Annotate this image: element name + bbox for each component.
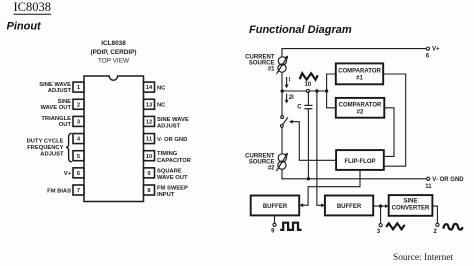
flip-flop U3 box (336, 150, 384, 170)
svg-text:CONVERTER: CONVERTER (392, 206, 430, 212)
current arrow I (285, 77, 291, 88)
heading Functional Diagram (249, 24, 352, 36)
pin 7 label FM BIAS (47, 188, 71, 194)
wire switch control from flip-flop (289, 120, 336, 161)
brace grouping pins 4-5 (66, 133, 72, 162)
comparator U1 box (336, 63, 383, 84)
wire node to comparator 1 (327, 74, 336, 91)
pin 1 label SINE WAVE ADJUST (39, 82, 71, 94)
current source I2 (276, 153, 288, 171)
pin 10 label TIMING CAPACITOR (157, 151, 192, 164)
pin 13 label NC (157, 103, 166, 109)
ground rail V- OR GND wire (282, 178, 427, 180)
V- OR GND terminal node (425, 177, 464, 190)
IC body U1 (84, 76, 144, 202)
svg-text:11: 11 (425, 184, 432, 190)
wire switch to I2 (281, 127, 283, 154)
current arrow 2I (285, 94, 294, 104)
pin 9 label SQUARE WAVE OUT (157, 168, 188, 181)
timing node horizontal wire (282, 90, 326, 92)
sine waveform symbol at pin 2 (443, 224, 462, 230)
svg-text:SINE: SINE (403, 199, 417, 205)
pin 14 box (144, 82, 155, 92)
node capacitor to ground junction (307, 177, 310, 180)
pin 10 box (144, 151, 155, 161)
current source I1 (277, 55, 289, 73)
wire I2 to ground rail (282, 169, 283, 179)
wire I1 to node (281, 72, 283, 91)
pin 4 box (73, 134, 84, 144)
node triangle tap junction (315, 89, 318, 92)
pin 3 box (73, 116, 84, 126)
pin 12 box (144, 116, 155, 126)
svg-text:V+: V+ (432, 47, 440, 53)
pin 10 terminal node (304, 82, 311, 93)
current source #1 label (245, 55, 275, 73)
wire flip-flop to buffer1 (299, 170, 360, 207)
wire node to switch (281, 91, 283, 116)
pin 2 label SINE WAVE OUT (41, 99, 72, 111)
caption Source: Internet (393, 253, 454, 263)
capacitor C (297, 91, 312, 179)
svg-text:10: 10 (304, 82, 311, 88)
pin 11 label V- OR GND (157, 137, 187, 143)
pin 8 label FM SWEEP INPUT (157, 185, 188, 198)
svg-text:#1: #1 (356, 76, 363, 82)
comparator U2 box (336, 98, 385, 118)
node comparator tap junction (325, 89, 328, 92)
svg-text:2I: 2I (289, 95, 294, 101)
pin 14 label NC (157, 85, 166, 91)
pin 7 box (73, 185, 84, 195)
svg-text:BUFFER: BUFFER (337, 204, 362, 210)
IC header text ICL8038 (PDIP, CERDIP) TOP VIEW (90, 40, 136, 64)
svg-text:3: 3 (377, 229, 381, 235)
pin 3 label TRIANGLE OUT (41, 116, 71, 128)
svg-text:C: C (297, 104, 302, 110)
triangle waveform symbol at pin 3 (386, 223, 405, 229)
svg-text:Source: Internet: Source: Internet (393, 253, 454, 263)
svg-text:#1: #1 (268, 67, 275, 73)
svg-text:FLIP-FLOP: FLIP-FLOP (345, 159, 376, 165)
wire to pin 3 terminal (377, 206, 382, 235)
pin 6 box (73, 168, 84, 178)
svg-text:#2: #2 (268, 166, 275, 172)
pins 4-5 label DUTY CYCLE FREQUENCY ADJUST (27, 139, 64, 158)
heading Pinout (7, 21, 43, 33)
pin 11 box (144, 134, 155, 144)
pin 8 box (144, 185, 155, 195)
V+ supply rail wire (282, 49, 426, 57)
wire node to comparator 2 (327, 91, 336, 108)
current source #2 label (245, 154, 275, 172)
title IC8038 (14, 0, 52, 14)
wire triangle to buffer2 (317, 91, 325, 207)
pin 6 label V+ (64, 171, 72, 177)
triangle waveform symbol at pin 10 (300, 73, 318, 79)
pin 9 box (144, 168, 155, 178)
node: timing node junction (281, 89, 284, 92)
wire buffer1 to pin 9 terminal (271, 215, 276, 234)
buffer A1 box (251, 196, 300, 216)
buffer A2 box (325, 196, 373, 216)
V+ terminal node (426, 47, 440, 60)
svg-text:I: I (289, 77, 291, 83)
square waveform symbol at pin 9 (280, 223, 301, 230)
switch S1 (281, 116, 289, 128)
pin 5 box (73, 151, 84, 161)
wire comparator 1 output to flip-flop (383, 74, 406, 166)
svg-text:9: 9 (271, 229, 275, 235)
svg-text:#2: #2 (357, 110, 364, 116)
wire comparator 2 output to flip-flop (384, 108, 394, 157)
pin 12 label SINE WAVE ADJUST (157, 117, 189, 130)
svg-text:COMPARATOR: COMPARATOR (339, 103, 382, 109)
sine converter box (389, 195, 433, 216)
svg-text:V- OR GND: V- OR GND (432, 177, 464, 183)
wire sine converter to pin 2 terminal (432, 206, 439, 235)
pin 2 box (73, 99, 84, 109)
svg-text:6: 6 (426, 54, 430, 60)
pin 1 box (73, 82, 84, 92)
wire buffer2 to sine converter (373, 204, 389, 208)
pin 13 box (144, 99, 155, 109)
node buffer2 output junction (379, 204, 382, 207)
svg-text:COMPARATOR: COMPARATOR (338, 69, 381, 75)
svg-text:BUFFER: BUFFER (263, 204, 288, 210)
svg-text:2: 2 (434, 229, 438, 235)
